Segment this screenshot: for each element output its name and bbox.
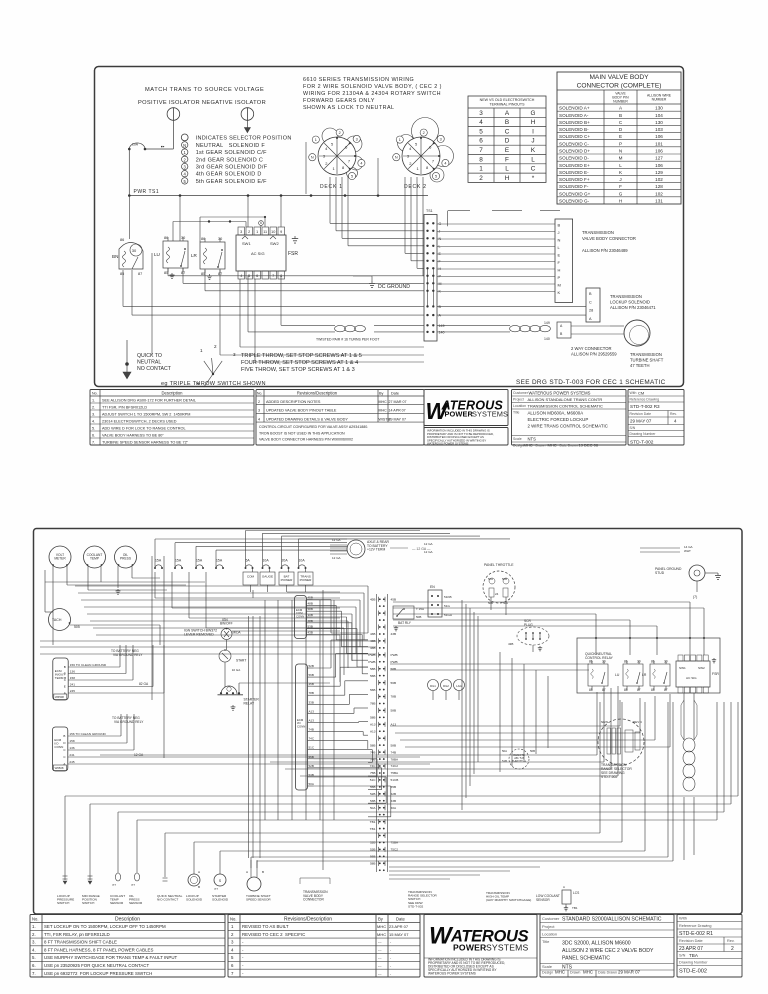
svg-text:TURBINE SPEED SENSOR HARNESS T: TURBINE SPEED SENSOR HARNESS TO BE 72" xyxy=(102,440,189,444)
svg-text:DG1: DG1 xyxy=(430,684,436,688)
svg-text:By: By xyxy=(378,917,384,922)
svg-text:PWB: PWB xyxy=(391,653,398,657)
svg-text:H: H xyxy=(531,119,536,126)
svg-text:106: 106 xyxy=(655,134,663,139)
svg-text:NO CONTACT: NO CONTACT xyxy=(137,366,172,372)
svg-text:10: 10 xyxy=(271,230,275,234)
svg-text:241: 241 xyxy=(69,753,74,757)
svg-text:SOLENOID E-: SOLENOID E- xyxy=(559,170,589,175)
svg-text:85: 85 xyxy=(164,271,168,275)
svg-text:TRON BOOST IS NOT USED IN THIS: TRON BOOST IS NOT USED IN THIS APPLICATI… xyxy=(259,431,345,435)
svg-text:CONN: CONN xyxy=(54,745,63,749)
svg-text:156 TO CLEAN GROUND: 156 TO CLEAN GROUND xyxy=(70,663,107,667)
svg-text:51KB: 51KB xyxy=(444,595,452,599)
svg-text:130: 130 xyxy=(655,120,663,125)
svg-text:Revisions/Description: Revisions/Description xyxy=(297,391,338,396)
svg-text:1: 1 xyxy=(200,348,203,353)
svg-text:245: 245 xyxy=(69,760,74,764)
svg-text:130: 130 xyxy=(655,106,663,111)
svg-text:51CB: 51CB xyxy=(391,778,399,782)
svg-text:158: 158 xyxy=(70,676,75,680)
svg-text:12 GA: 12 GA xyxy=(332,556,341,560)
svg-text:EN: EN xyxy=(430,585,435,589)
svg-text:L: L xyxy=(505,166,509,173)
svg-text:78B: 78B xyxy=(391,695,397,699)
svg-text:5th GEAR SOLENOID E/F: 5th GEAR SOLENOID E/F xyxy=(196,179,267,185)
svg-text:ADDED DESCRIPTION NOTES: ADDED DESCRIPTION NOTES xyxy=(266,400,321,404)
svg-text:106: 106 xyxy=(655,149,663,154)
svg-text:F: F xyxy=(558,260,561,265)
svg-text:No.: No. xyxy=(92,392,98,396)
svg-text:45B: 45B xyxy=(370,597,376,601)
svg-text:9: 9 xyxy=(280,230,282,234)
svg-text:102: 102 xyxy=(655,191,663,196)
svg-text:2 WIRE TRANS CONTROL SCHEMATIC: 2 WIRE TRANS CONTROL SCHEMATIC xyxy=(528,424,608,429)
svg-text:TRANSMISSION: TRANSMISSION xyxy=(630,352,662,357)
svg-text:METER: METER xyxy=(54,557,66,561)
svg-text:With: With xyxy=(679,916,687,921)
svg-text:BN: BN xyxy=(112,254,118,259)
svg-text:-: - xyxy=(390,972,392,976)
svg-text:50A: 50A xyxy=(488,577,493,581)
svg-text:4: 4 xyxy=(231,947,234,952)
svg-text:LAG: LAG xyxy=(456,684,462,688)
svg-text:55B: 55B xyxy=(391,785,397,789)
svg-text:WATEROUS POWER SYSTEMS: WATEROUS POWER SYSTEMS xyxy=(428,972,477,976)
svg-text:12 GA: 12 GA xyxy=(332,538,341,542)
svg-text:55B: 55B xyxy=(370,785,376,789)
svg-text:THROTTLE: THROTTLE xyxy=(512,759,526,763)
svg-text:/77: /77 xyxy=(112,883,116,887)
svg-text:CM: CM xyxy=(638,391,644,396)
svg-text:4th GEAR SOLENOID D: 4th GEAR SOLENOID D xyxy=(196,172,262,178)
svg-text:H: H xyxy=(505,175,510,182)
svg-text:3: 3 xyxy=(231,940,234,945)
svg-text:Reference Drawing: Reference Drawing xyxy=(630,398,660,402)
svg-text:TRANSMISSION: TRANSMISSION xyxy=(610,294,642,299)
svg-text:STUD: STUD xyxy=(655,571,665,575)
svg-text:N: N xyxy=(183,143,186,148)
svg-text:STD-T-002 R3: STD-T-002 R3 xyxy=(630,404,660,409)
svg-text:CONTROL CIRCUIT CONFIGURED FOR: CONTROL CIRCUIT CONFIGURED FOR VALVE ASS… xyxy=(259,425,368,429)
svg-text:ALLISON P/N 29529559: ALLISON P/N 29529559 xyxy=(571,351,617,356)
svg-text:106: 106 xyxy=(655,163,663,168)
svg-text:SOLENOID G-: SOLENOID G- xyxy=(559,199,590,204)
svg-text:33B: 33B xyxy=(309,700,314,704)
svg-text:149: 149 xyxy=(439,324,445,328)
svg-text:DECK 2: DECK 2 xyxy=(404,184,427,190)
svg-text:L: L xyxy=(531,156,535,163)
svg-text:5: 5 xyxy=(231,955,234,960)
svg-text:K: K xyxy=(619,170,623,175)
svg-text:3: 3 xyxy=(184,165,187,170)
svg-text:8: 8 xyxy=(479,156,483,163)
svg-text:Drawing Number: Drawing Number xyxy=(679,961,708,965)
svg-text:10 GA: 10 GA xyxy=(232,668,241,672)
svg-text:4.: 4. xyxy=(92,419,95,423)
svg-text:241: 241 xyxy=(70,683,75,687)
svg-text:56B: 56B xyxy=(391,681,397,685)
svg-text:With: With xyxy=(630,391,637,395)
svg-text:ADD WIRE D FOR LOCK TO RANGE C: ADD WIRE D FOR LOCK TO RANGE CONTROL xyxy=(102,426,186,430)
svg-text:A: A xyxy=(246,870,248,874)
svg-text:ALLISON P/N 23046471: ALLISON P/N 23046471 xyxy=(610,305,656,310)
svg-text:CONNECTOR (COMPLETE): CONNECTOR (COMPLETE) xyxy=(577,83,662,90)
svg-text:A: A xyxy=(560,324,563,328)
svg-text:Description: Description xyxy=(115,917,140,923)
svg-text:NEW: NEW xyxy=(601,720,608,724)
svg-text:BW/OFF: BW/OFF xyxy=(220,622,233,626)
svg-text:4: 4 xyxy=(479,119,483,126)
svg-text:A13: A13 xyxy=(370,729,376,733)
svg-text:SWITCH: SWITCH xyxy=(82,901,94,905)
svg-text:STD-T-002: STD-T-002 xyxy=(601,775,617,779)
svg-text:SOLENOID B+: SOLENOID B+ xyxy=(559,120,590,125)
svg-text:B: B xyxy=(262,870,264,874)
svg-text:H: H xyxy=(619,199,622,204)
svg-text:LR: LR xyxy=(642,673,647,677)
svg-text:---: --- xyxy=(378,972,382,976)
svg-text:PRESS: PRESS xyxy=(120,557,132,561)
svg-text:74C: 74C xyxy=(370,764,376,768)
svg-text:58B: 58B xyxy=(391,743,397,747)
svg-text:D: D xyxy=(505,138,510,145)
svg-text:51GA: 51GA xyxy=(444,613,453,617)
svg-text:G: G xyxy=(531,110,536,117)
svg-text:SEE ALLISON DRG AS00-172 FOR F: SEE ALLISON DRG AS00-172 FOR FURTHER DET… xyxy=(102,398,196,402)
svg-text:102: 102 xyxy=(655,177,663,182)
svg-text:75B: 75B xyxy=(370,771,376,775)
svg-text:SPEED SENSOR: SPEED SENSOR xyxy=(246,898,271,902)
svg-text:-: - xyxy=(242,940,244,945)
svg-text:TBA: TBA xyxy=(689,953,699,958)
svg-text:SYSTEMS: SYSTEMS xyxy=(472,410,508,419)
svg-text:Location: Location xyxy=(513,404,526,408)
svg-text:75BA: 75BA xyxy=(391,841,400,845)
svg-text:-: - xyxy=(242,971,244,976)
svg-text:SW2: SW2 xyxy=(698,666,705,670)
svg-text:D: D xyxy=(63,741,66,745)
svg-text:B: B xyxy=(439,305,442,309)
svg-text:FSR: FSR xyxy=(288,251,298,257)
svg-text:(GRY MURPHY SWITCHGAGE): (GRY MURPHY SWITCHGAGE) xyxy=(486,898,531,902)
svg-text:No.: No. xyxy=(257,392,262,396)
svg-text:STANDARD S2000/ALLISON SCHEMAT: STANDARD S2000/ALLISON SCHEMATIC xyxy=(562,917,662,923)
svg-text:W6508: W6508 xyxy=(55,766,64,770)
svg-text:Rev.: Rev. xyxy=(727,939,735,943)
svg-text:VALVE BODY CONNECTOR: VALVE BODY CONNECTOR xyxy=(582,236,636,241)
svg-text:STD-E-002: STD-E-002 xyxy=(679,969,707,975)
svg-text:TB1: TB1 xyxy=(370,820,376,824)
svg-text:---: --- xyxy=(378,941,382,945)
svg-text:D: D xyxy=(619,127,623,132)
svg-text:MAIN VALVE BODY: MAIN VALVE BODY xyxy=(589,74,649,81)
svg-text:/77: /77 xyxy=(214,887,218,891)
svg-text:-: - xyxy=(390,956,392,960)
svg-text:-: - xyxy=(242,947,244,952)
svg-text:C: C xyxy=(531,166,536,173)
svg-text:E: E xyxy=(558,253,561,258)
svg-text:▸▸: ▸▸ xyxy=(161,145,165,149)
svg-text:/77: /77 xyxy=(131,883,135,887)
svg-text:MHC: MHC xyxy=(555,970,565,975)
svg-text:87: 87 xyxy=(138,272,142,276)
svg-text:85: 85 xyxy=(120,272,124,276)
svg-text:1.: 1. xyxy=(32,924,36,929)
svg-text:SOLENOID A+: SOLENOID A+ xyxy=(559,106,590,111)
svg-text:45B: 45B xyxy=(308,596,313,600)
svg-text:+12V TERM: +12V TERM xyxy=(367,548,385,552)
svg-text:Drawn: Drawn xyxy=(570,971,580,975)
svg-text:J: J xyxy=(531,138,534,145)
svg-text:(7): (7) xyxy=(693,595,697,599)
svg-text:Revision Date: Revision Date xyxy=(679,939,703,943)
svg-text:S/N: S/N xyxy=(679,954,686,958)
svg-text:A13: A13 xyxy=(370,723,376,727)
svg-text:Date Drawn: Date Drawn xyxy=(598,971,617,975)
svg-text:52B: 52B xyxy=(391,792,397,796)
svg-text:4: 4 xyxy=(360,162,362,166)
svg-text:52B: 52B xyxy=(370,792,376,796)
svg-text:CONN: CONN xyxy=(297,724,305,728)
svg-text:2: 2 xyxy=(423,131,425,135)
svg-text:15A: 15A xyxy=(216,559,223,563)
svg-text:101: 101 xyxy=(655,141,663,146)
svg-text:50A: 50A xyxy=(503,601,508,605)
svg-text:WHT: WHT xyxy=(684,549,691,553)
svg-text:19 DEC 06: 19 DEC 06 xyxy=(579,443,599,448)
svg-text:C: C xyxy=(63,755,66,759)
svg-text:MHC: MHC xyxy=(548,443,557,448)
svg-text:B: B xyxy=(558,223,561,228)
svg-text:USE pn 6932772 FOR LOCKUP PRE: USE pn 6932772 FOR LOCKUP PRESSURE SWITC… xyxy=(44,971,152,976)
svg-text:No.: No. xyxy=(32,917,39,922)
svg-text:SOLENOID E+: SOLENOID E+ xyxy=(559,163,590,168)
svg-text:50A: 50A xyxy=(391,806,397,810)
svg-text:SOLENOID D-: SOLENOID D- xyxy=(559,156,589,161)
svg-text:C: C xyxy=(589,300,592,304)
svg-text:CONNECTOR: CONNECTOR xyxy=(303,898,324,902)
svg-text:DECK 1: DECK 1 xyxy=(320,184,343,190)
svg-text:LR: LR xyxy=(191,253,198,258)
svg-text:FOR 2 WIRE SOLENOID VALVE BODY: FOR 2 WIRE SOLENOID VALVE BODY, ( CEC 2 … xyxy=(303,84,442,90)
svg-text:FOUR THROW, SET STOP SCREWS AT: FOUR THROW, SET STOP SCREWS AT 1 & 4 xyxy=(241,360,358,366)
svg-text:Date: Date xyxy=(391,392,399,396)
svg-text:2: 2 xyxy=(479,175,483,182)
svg-text:15A: 15A xyxy=(175,559,182,563)
svg-text:DC GROUND: DC GROUND xyxy=(378,284,410,290)
svg-text:REVISED TO CEC 2 SPECIFIC: REVISED TO CEC 2 SPECIFIC xyxy=(242,932,305,937)
svg-text:50A: 50A xyxy=(370,806,376,810)
svg-text:1.: 1. xyxy=(92,398,95,402)
svg-text:8 FT PANEL HARNESS, 8 FT PANEL: 8 FT PANEL HARNESS, 8 FT PANEL POWER CAB… xyxy=(44,947,153,952)
svg-text:5: 5 xyxy=(435,175,437,179)
svg-text:58B: 58B xyxy=(370,743,376,747)
svg-text:A13: A13 xyxy=(309,709,315,713)
svg-text:MHC: MHC xyxy=(377,932,386,937)
svg-text:74B: 74B xyxy=(370,750,376,754)
svg-text:SW2: SW2 xyxy=(270,241,279,246)
svg-text:1: 1 xyxy=(256,230,258,234)
svg-text:C: C xyxy=(505,128,510,135)
svg-text:J: J xyxy=(558,230,560,235)
svg-text:58B: 58B xyxy=(370,667,376,671)
svg-text:STD-T-002: STD-T-002 xyxy=(630,440,654,446)
svg-text:INDICATES SELECTOR POSITION: INDICATES SELECTOR POSITION xyxy=(196,135,292,141)
svg-text:TWISTED PAIR # 16 TURNS PER FO: TWISTED PAIR # 16 TURNS PER FOOT xyxy=(316,338,380,342)
svg-text:BAT RLY: BAT RLY xyxy=(398,621,412,625)
svg-text:SOLENOID: SOLENOID xyxy=(212,898,229,902)
svg-text:12 GA: 12 GA xyxy=(424,542,433,546)
svg-text:50B: 50B xyxy=(488,601,493,605)
svg-text:86: 86 xyxy=(164,236,168,240)
svg-text:10A: 10A xyxy=(299,559,306,563)
svg-text:2: 2 xyxy=(731,946,734,952)
svg-text:86: 86 xyxy=(201,237,205,241)
svg-text:Date Drawn: Date Drawn xyxy=(560,444,578,448)
svg-text:VALVE BODY CONNECTOR HARNESS P: VALVE BODY CONNECTOR HARNESS P/N W900060… xyxy=(259,438,353,442)
svg-text:SOLENOID D+: SOLENOID D+ xyxy=(559,149,590,154)
svg-text:NUMBER: NUMBER xyxy=(652,98,667,102)
svg-text:58B: 58B xyxy=(391,709,397,713)
svg-text:103: 103 xyxy=(655,127,663,132)
svg-text:B: B xyxy=(63,734,65,738)
svg-text:78B: 78B xyxy=(370,757,376,761)
svg-text:Scale: Scale xyxy=(542,964,553,969)
svg-text:4: 4 xyxy=(444,162,446,166)
svg-text:78BA: 78BA xyxy=(391,757,400,761)
svg-text:4: 4 xyxy=(258,417,260,421)
svg-text:N: N xyxy=(311,156,314,160)
svg-text:12 GA: 12 GA xyxy=(424,550,433,554)
svg-text:POWER: POWER xyxy=(300,578,313,582)
svg-text:505: 505 xyxy=(74,625,80,629)
svg-text:50A: 50A xyxy=(502,749,507,753)
svg-text:B: B xyxy=(198,885,200,889)
svg-text:PANEL THROTTLE: PANEL THROTTLE xyxy=(484,563,514,567)
svg-text:NEW VS OLD ELECTROSWITCH: NEW VS OLD ELECTROSWITCH xyxy=(480,98,535,102)
svg-text:6.: 6. xyxy=(92,433,95,437)
svg-text:REV 4: REV 4 xyxy=(633,720,642,724)
svg-text:E: E xyxy=(619,134,622,139)
svg-text:PWB: PWB xyxy=(368,653,375,657)
svg-text:Design: Design xyxy=(542,971,553,975)
svg-text:245: 245 xyxy=(70,689,75,693)
svg-text:23 APR 07: 23 APR 07 xyxy=(679,946,703,952)
svg-text:A: A xyxy=(619,106,623,111)
svg-text:SOLENOID B-: SOLENOID B- xyxy=(559,127,589,132)
svg-text:POWER: POWER xyxy=(445,410,474,419)
svg-text:E: E xyxy=(505,147,509,154)
svg-text:50A: 50A xyxy=(309,782,314,786)
svg-text:Design: Design xyxy=(513,444,524,448)
svg-text:47 TEETH: 47 TEETH xyxy=(630,363,649,368)
svg-text:STD-E-002 R1: STD-E-002 R1 xyxy=(679,931,713,937)
svg-text:50B: 50B xyxy=(416,615,421,619)
svg-text:B: B xyxy=(560,332,563,336)
svg-text:C: C xyxy=(619,120,623,125)
svg-text:S: S xyxy=(219,879,222,883)
svg-text:Location: Location xyxy=(542,932,557,937)
svg-text:3.: 3. xyxy=(92,412,95,416)
svg-text:SENSOR: SENSOR xyxy=(129,901,143,905)
svg-text:F: F xyxy=(505,156,509,163)
svg-text:Description: Description xyxy=(162,391,184,396)
svg-text:SW1: SW1 xyxy=(679,666,686,670)
svg-text:23014 ELECTROSWITCH, 2 DECKS U: 23014 ELECTROSWITCH, 2 DECKS USED xyxy=(102,419,177,423)
svg-text:ALLISON MD600A, M6600A: ALLISON MD600A, M6600A xyxy=(528,411,584,416)
svg-text:30B: 30B xyxy=(308,613,313,617)
svg-text:F: F xyxy=(619,184,622,189)
svg-text:B: B xyxy=(589,292,592,296)
svg-text:5.: 5. xyxy=(92,426,95,430)
svg-text:-: - xyxy=(242,963,244,968)
svg-text:STD-T-002: STD-T-002 xyxy=(408,904,424,908)
svg-text:1: 1 xyxy=(399,138,401,142)
svg-text:B: B xyxy=(619,113,622,118)
svg-text:A: A xyxy=(505,110,510,117)
svg-text:---: --- xyxy=(378,956,382,960)
svg-text:82 GA: 82 GA xyxy=(139,682,149,686)
svg-text:FORWARD GEARS ONLY: FORWARD GEARS ONLY xyxy=(303,98,375,104)
svg-text:A: A xyxy=(63,762,65,766)
svg-text:53B: 53B xyxy=(309,773,314,777)
svg-text:1: 1 xyxy=(231,924,234,929)
svg-text:SOLENOID A-: SOLENOID A- xyxy=(559,113,589,118)
svg-text:FIVE THROW, SET STOP SCREWS AT: FIVE THROW, SET STOP SCREWS AT 1 & 3 xyxy=(241,367,355,373)
svg-text:-: - xyxy=(390,964,392,968)
svg-text:6: 6 xyxy=(231,963,234,968)
svg-text:NTS: NTS xyxy=(528,437,537,442)
svg-text:6610 SERIES TRANSMISSION WIRIN: 6610 SERIES TRANSMISSION WIRING xyxy=(303,77,414,83)
svg-text:2: 2 xyxy=(184,157,187,162)
svg-text:PWB: PWB xyxy=(368,660,375,664)
svg-text:4.: 4. xyxy=(32,947,36,952)
svg-text:TERMINAL PINOUTS: TERMINAL PINOUTS xyxy=(489,103,525,107)
svg-text:3: 3 xyxy=(356,137,358,141)
svg-text:2: 2 xyxy=(231,932,234,937)
svg-text:TB1: TB1 xyxy=(572,906,578,910)
svg-text:2: 2 xyxy=(214,344,217,349)
svg-text:78B: 78B xyxy=(309,691,314,695)
svg-text:58B: 58B xyxy=(370,716,376,720)
svg-text:149: 149 xyxy=(544,321,550,325)
svg-text:85: 85 xyxy=(201,272,205,276)
svg-text:58B: 58B xyxy=(370,862,376,866)
svg-text:58B: 58B xyxy=(391,667,397,671)
svg-text:Customer: Customer xyxy=(513,391,529,395)
svg-text:-: - xyxy=(390,948,392,952)
svg-text:WATEROUS POWER SYSTEMS: WATEROUS POWER SYSTEMS xyxy=(427,442,468,446)
svg-text:5: 5 xyxy=(351,175,353,179)
svg-text:158: 158 xyxy=(69,739,74,743)
svg-text:B: B xyxy=(505,119,509,126)
svg-text:51C: 51C xyxy=(309,746,315,750)
svg-text:3rd GEAR SOLENOID D/F: 3rd GEAR SOLENOID D/F xyxy=(196,165,268,171)
svg-text:2.: 2. xyxy=(32,932,36,937)
svg-text:E: E xyxy=(64,685,66,689)
svg-text:A: A xyxy=(198,870,200,874)
svg-text:15A: 15A xyxy=(196,559,203,563)
svg-text:104: 104 xyxy=(655,113,663,118)
svg-text:74C2: 74C2 xyxy=(391,764,399,768)
svg-text:SYSTEMS: SYSTEMS xyxy=(486,943,529,953)
svg-text:N: N xyxy=(558,238,561,243)
svg-text:74C: 74C xyxy=(309,737,315,741)
svg-text:24: 24 xyxy=(495,592,499,596)
svg-text:LOCKUP SOLENOID: LOCKUP SOLENOID xyxy=(610,300,650,305)
svg-text:Scale: Scale xyxy=(513,437,522,441)
